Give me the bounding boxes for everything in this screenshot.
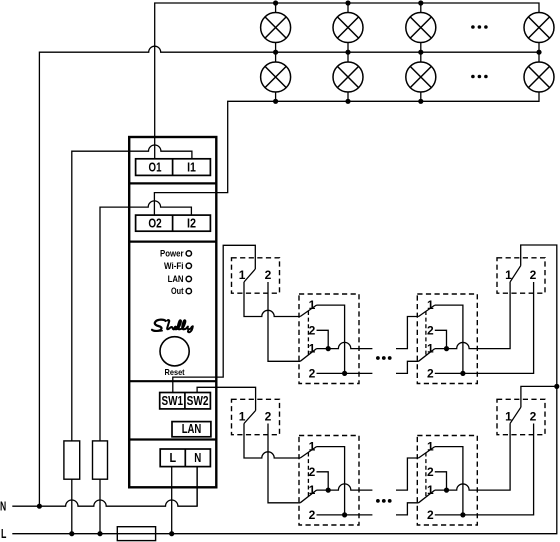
switch S7 terminal 1 upper wire xyxy=(435,447,463,515)
wire lamp bus bottom (from O2) xyxy=(154,92,539,215)
wire lamp bus middle (neutral return) xyxy=(39,46,539,506)
switch S3 terminal 2 upper wire xyxy=(435,330,447,348)
switch S3 terminal 1 upper wire xyxy=(435,305,463,373)
Shelly logo xyxy=(152,320,193,333)
switch S2 dashed box xyxy=(299,294,359,384)
svg-text:2: 2 xyxy=(427,366,434,380)
svg-text:1: 1 xyxy=(505,268,512,282)
LED Out xyxy=(186,288,191,293)
switch S6 gang link xyxy=(307,453,309,498)
switch S8 (right end, lower): lever xyxy=(510,407,521,423)
wire L terminal riser N xyxy=(196,467,198,507)
device section divider 1 xyxy=(129,182,216,184)
switch S8 dashed box xyxy=(497,399,545,434)
device section divider 2 xyxy=(129,241,216,243)
junction dots middle bus xyxy=(273,50,542,55)
lamp E1 row1 col1 xyxy=(261,13,291,43)
svg-text:N: N xyxy=(194,450,201,465)
svg-text:1: 1 xyxy=(427,440,434,454)
ellipsis upper network xyxy=(376,356,392,360)
wire L supply line xyxy=(12,245,557,534)
switch S5 dashed box xyxy=(232,399,280,434)
svg-text:2: 2 xyxy=(427,508,434,522)
wire lamp stub column 2 xyxy=(347,3,349,101)
lamp E5 row2 col1 xyxy=(261,62,291,92)
switch S2 lower lever xyxy=(300,349,316,362)
switch S7 lower lever xyxy=(419,490,435,503)
ellipsis lower network xyxy=(376,499,392,503)
LED LAN xyxy=(186,276,191,281)
device section divider 4 xyxy=(129,438,216,440)
switch S2 output line 2 xyxy=(317,372,373,374)
terminal block O2 I2 xyxy=(136,215,211,231)
wire fuse F2 to L line xyxy=(99,479,101,534)
switch S3 junction dots xyxy=(444,346,466,376)
lamp E7 row2 col3 xyxy=(406,62,436,92)
terminal block O1 I1 xyxy=(136,159,211,176)
fuse F3 on L line xyxy=(117,527,155,541)
svg-text:1: 1 xyxy=(309,342,316,356)
svg-text:O1: O1 xyxy=(149,160,162,175)
svg-text:2: 2 xyxy=(309,508,316,522)
switch S5 terminal 1 wire with hop xyxy=(244,424,300,459)
switch S7 dashed box xyxy=(417,436,477,526)
ellipsis lamps row1 xyxy=(471,25,488,29)
terminal block L N xyxy=(160,449,210,467)
switch S7 output line 1 (hop) to S8 terminal 1 xyxy=(435,423,510,490)
switch S3 output line 2 to S4 terminal 2 xyxy=(435,282,534,373)
lamp E4 row1 col4 xyxy=(524,13,554,43)
wire lamp stub column 1 xyxy=(275,3,277,101)
wire lamp stub column 4 xyxy=(538,13,540,93)
svg-text:L: L xyxy=(1,527,7,541)
svg-text:1: 1 xyxy=(427,342,434,356)
wire L terminal down to L line xyxy=(171,467,173,534)
switch S6 (intermediate, lower): upper lever xyxy=(300,447,316,458)
ellipsis lamps row2 xyxy=(471,75,488,79)
switch S7 output line 2 to S8 terminal 2 xyxy=(435,424,534,515)
Shelly device outline xyxy=(129,137,216,487)
svg-text:LAN: LAN xyxy=(182,421,202,436)
switch S2 (intermediate, upper): upper lever xyxy=(300,305,316,316)
switch S7 input wires xyxy=(396,458,419,490)
junction dots bottom bus xyxy=(273,99,423,104)
junction dots L line xyxy=(69,531,174,536)
switch S1 terminal 2 wire xyxy=(268,282,300,361)
device section divider 3 xyxy=(129,380,216,382)
lamp E2 row1 col2 xyxy=(333,13,363,43)
switch S7 (intermediate, lower): upper lever xyxy=(419,447,435,458)
fuse F2 xyxy=(93,441,108,479)
svg-text:1: 1 xyxy=(427,483,434,497)
switch S3 input wires xyxy=(396,317,419,349)
svg-text:N: N xyxy=(0,500,6,514)
wire I1 input (from fuse F1 riser, hop over O1 wire) xyxy=(72,145,192,441)
svg-text:2: 2 xyxy=(427,465,434,479)
svg-text:1: 1 xyxy=(309,483,316,497)
fuse F1 xyxy=(64,441,80,479)
switch S3 (intermediate, upper): upper lever xyxy=(419,305,435,316)
switch S6 dashed box xyxy=(299,436,359,526)
svg-text:Power: Power xyxy=(160,248,184,258)
svg-text:SW1: SW1 xyxy=(162,393,184,408)
wire lamp stub column 3 xyxy=(420,3,422,101)
svg-text:O2: O2 xyxy=(148,216,161,231)
switch S1 dashed box xyxy=(232,258,280,293)
wire lamp bus top (from O1) xyxy=(155,3,539,159)
LED Power xyxy=(186,251,191,256)
switch S2 output line 1 (hop) xyxy=(317,342,373,348)
terminal block SW1 SW2 xyxy=(160,393,211,409)
switch S6 lower lever xyxy=(300,490,316,503)
svg-text:1: 1 xyxy=(239,268,246,282)
wire N supply line xyxy=(12,467,197,507)
svg-text:Reset: Reset xyxy=(165,367,185,377)
switch S6 output line 1 (hop) xyxy=(317,484,373,490)
switch S3 output line 1 (hop) to S4 terminal 1 xyxy=(435,282,510,349)
wire SW2 to lower left switch box common xyxy=(197,387,256,410)
svg-text:LAN: LAN xyxy=(168,274,184,284)
switch S2 terminal 2 upper wire xyxy=(317,330,329,348)
wire S8 common feed from L riser xyxy=(521,386,557,407)
svg-text:2: 2 xyxy=(309,465,316,479)
junction dots top bus xyxy=(273,0,423,5)
svg-text:2: 2 xyxy=(265,409,272,423)
svg-text:Wi-Fi: Wi-Fi xyxy=(164,261,184,271)
switch S1 (left end, upper): lever xyxy=(244,269,255,282)
svg-text:1: 1 xyxy=(309,298,316,312)
switch S3 dashed box xyxy=(417,294,477,384)
switch S6 terminal 2 upper wire xyxy=(317,472,329,490)
svg-text:I2: I2 xyxy=(187,216,196,231)
lamp E6 row2 col2 xyxy=(333,62,363,92)
lamp E8 row2 col4 xyxy=(524,62,554,92)
svg-text:2: 2 xyxy=(309,366,316,380)
svg-text:Out: Out xyxy=(171,286,184,296)
svg-text:1: 1 xyxy=(505,409,512,423)
switch S5 (left end, lower): lever xyxy=(244,411,256,424)
wire SW1 to left switch box common xyxy=(173,245,256,392)
switch S4 (right end, upper): lever xyxy=(510,266,521,282)
switch S5 terminal 2 wire xyxy=(268,424,300,503)
junction dot L riser xyxy=(554,384,559,389)
svg-text:2: 2 xyxy=(530,268,537,282)
terminal block LAN xyxy=(172,422,211,437)
wire I2 input (from fuse F2 riser, hop over O2 wire) xyxy=(100,201,191,441)
switch S7 junction dots xyxy=(444,488,466,518)
switch S2 gang link xyxy=(307,311,309,356)
lamp E3 row1 col3 xyxy=(406,13,436,43)
junction dot N line / neutral riser xyxy=(37,504,42,509)
svg-text:L: L xyxy=(170,450,177,465)
svg-text:SW2: SW2 xyxy=(187,393,209,408)
reset button xyxy=(160,337,189,366)
svg-text:1: 1 xyxy=(239,409,246,423)
switch S7 terminal 2 upper wire xyxy=(435,472,447,490)
svg-text:2: 2 xyxy=(309,323,316,337)
switch S4 dashed box xyxy=(497,258,545,293)
switch S6 junction dots xyxy=(326,488,348,518)
svg-text:1: 1 xyxy=(309,440,316,454)
svg-text:I1: I1 xyxy=(187,160,196,175)
switch S6 output line 2 xyxy=(317,514,373,516)
switch S2 junction dots xyxy=(326,346,348,376)
LED Wi-Fi xyxy=(186,263,191,268)
switch S3 lower lever xyxy=(419,349,435,362)
switch S1 terminal 1 wire with hop over terminal 2 wire xyxy=(244,282,300,317)
svg-text:2: 2 xyxy=(265,268,272,282)
svg-text:2: 2 xyxy=(530,409,537,423)
switch S7 gang link xyxy=(425,453,427,498)
svg-text:2: 2 xyxy=(427,323,434,337)
switch S3 gang link xyxy=(425,311,427,356)
wire fuse F1 to L line xyxy=(71,479,73,534)
switch S2 terminal 1 upper wire xyxy=(317,305,345,373)
svg-text:1: 1 xyxy=(427,298,434,312)
switch S6 terminal 1 upper wire xyxy=(317,447,345,515)
